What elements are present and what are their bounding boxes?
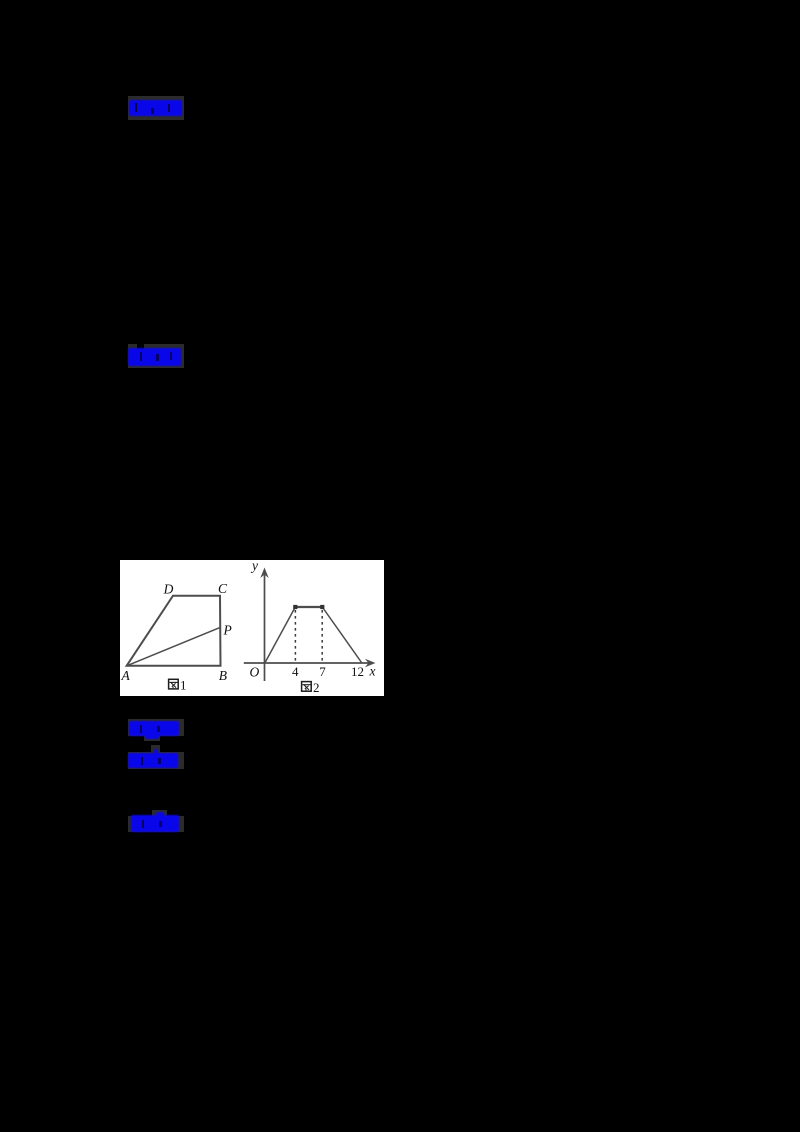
svg-text:2: 2 — [313, 680, 320, 695]
svg-text:7: 7 — [319, 664, 326, 679]
svg-text:1: 1 — [180, 678, 187, 693]
svg-text:C: C — [218, 581, 228, 596]
svg-text:O: O — [250, 665, 260, 680]
svg-text:12: 12 — [351, 664, 364, 679]
svg-text:A: A — [121, 668, 131, 683]
svg-text:x: x — [369, 664, 376, 679]
svg-text:y: y — [250, 560, 258, 573]
svg-text:P: P — [223, 623, 232, 638]
svg-text:D: D — [163, 582, 174, 597]
svg-text:B: B — [219, 668, 227, 683]
svg-text:4: 4 — [292, 664, 299, 679]
